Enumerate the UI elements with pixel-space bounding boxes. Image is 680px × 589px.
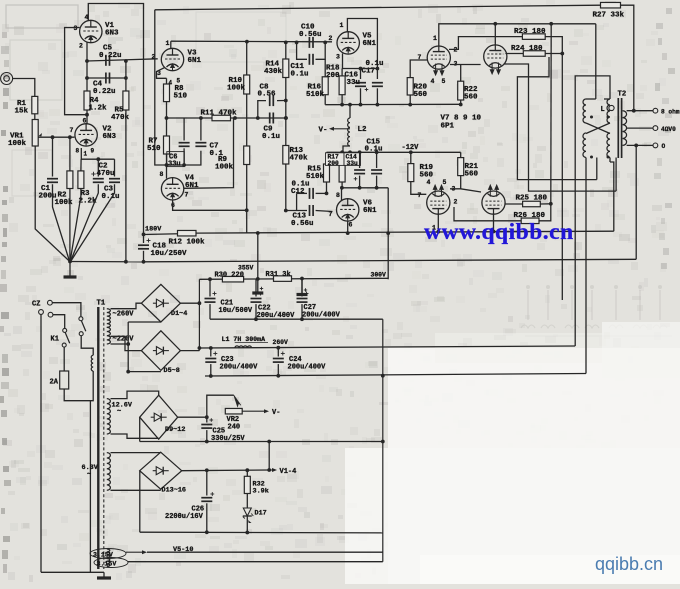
resistor R5 <box>125 61 127 91</box>
capacitor C9 0.1u row <box>269 113 271 124</box>
wire R25 right junction <box>540 203 551 205</box>
T2 secondary winding <box>623 111 627 146</box>
zener D17 <box>246 494 248 509</box>
svg-text:V1-4: V1-4 <box>280 468 297 476</box>
wire B+ drop x551 to R25 node <box>550 24 552 204</box>
capacitor C17 0.1u <box>372 82 383 84</box>
T2 secondary taps <box>627 110 653 112</box>
wire R8 to R7 <box>166 102 168 136</box>
wire V6 pin6 down to rail233 <box>347 221 349 233</box>
capacitor C16 33u <box>360 69 362 80</box>
resistor R2 <box>69 137 71 171</box>
wire V10 bottom to rail233 <box>493 214 495 231</box>
svg-text:470u: 470u <box>97 170 115 178</box>
wire V3 pin3 bracket to R8 <box>157 68 167 79</box>
svg-text:6N1: 6N1 <box>363 207 377 215</box>
svg-text:D9~12: D9~12 <box>165 426 185 434</box>
svg-text:200u/400V: 200u/400V <box>220 364 259 372</box>
svg-text:qqibb.cn: qqibb.cn <box>595 554 663 574</box>
svg-text:9: 9 <box>91 148 95 155</box>
bottom wire to T1 ground <box>41 571 104 573</box>
wire R1 to VR1 <box>34 114 36 120</box>
resistor R13 470k <box>283 146 289 165</box>
wire VR1 wiper to V2 grid <box>38 136 74 138</box>
T1 260V winding <box>107 309 111 328</box>
capacitor C7 0.1 <box>200 118 202 141</box>
capacitor C4 <box>105 73 107 84</box>
resistor R8 510 <box>166 78 168 84</box>
svg-text:V5-10: V5-10 <box>173 546 193 554</box>
capacitor C26 2200u/16V <box>206 470 208 495</box>
svg-text:1: 1 <box>166 40 170 47</box>
svg-text:7: 7 <box>329 211 333 218</box>
svg-text:D13~16: D13~16 <box>162 487 186 495</box>
screen rail y104.7 <box>325 103 461 105</box>
wire 6.3V taps to bridge D13-16 <box>111 452 161 454</box>
resistor R1 <box>32 96 38 113</box>
white paper region bottom right <box>388 348 680 584</box>
svg-text:L2: L2 <box>358 126 368 134</box>
bottom rail y187.8 to 300V drop <box>342 187 388 189</box>
capacitor C27 200u/400V <box>301 279 303 297</box>
svg-text:R24 180: R24 180 <box>511 45 543 53</box>
feedback rail left drop to cathode node <box>155 10 167 165</box>
svg-text:100k: 100k <box>227 85 246 93</box>
svg-text:1: 1 <box>340 22 344 29</box>
svg-text:7: 7 <box>418 192 422 199</box>
svg-text:1.2k: 1.2k <box>89 105 108 113</box>
svg-text:33u: 33u <box>347 79 361 87</box>
svg-text:2: 2 <box>329 35 333 42</box>
T2 winding outer lower <box>583 133 586 158</box>
fuse 2A <box>63 347 65 371</box>
tube V4 6N1 <box>161 178 183 200</box>
svg-text:260V: 260V <box>273 339 289 346</box>
rail y233 180V <box>196 231 614 233</box>
capacitor C1 200u <box>52 137 54 176</box>
capacitor C13 0.56u <box>296 193 298 210</box>
tube V6 6N1 <box>337 199 359 221</box>
svg-text:200u/400V: 200u/400V <box>302 312 341 320</box>
svg-text:510: 510 <box>147 145 161 153</box>
svg-text:8: 8 <box>160 171 164 178</box>
svg-text:5: 5 <box>177 78 181 85</box>
tube V1 6N3 <box>80 20 102 42</box>
wire D13-16 output V1-4 <box>182 469 270 472</box>
svg-text:~: ~ <box>117 408 121 416</box>
capacitor C14 33u <box>359 152 361 168</box>
resistor R3 <box>78 171 84 189</box>
wire 0-tap down to ground rail <box>635 145 637 259</box>
capacitor C6 33u boxed label <box>183 118 185 141</box>
switch K1 <box>79 317 83 321</box>
wire R23 right to drop <box>545 37 562 54</box>
svg-text:10u/250V: 10u/250V <box>151 250 188 258</box>
bridge D1-4 <box>141 284 180 322</box>
T2 primary feed upper inner <box>575 76 610 346</box>
svg-text:R30 220: R30 220 <box>215 271 244 279</box>
svg-text:V-: V- <box>319 126 328 134</box>
wire V7 pin7 to R20 <box>410 60 427 78</box>
wire C2 to ground fan <box>70 184 98 261</box>
T1 220V winding <box>107 327 111 344</box>
wire V5 plate loop to C17 column <box>347 19 377 80</box>
C2x bottom rail y319 <box>210 318 383 320</box>
long drop x562 <box>561 54 563 301</box>
svg-text:7: 7 <box>70 127 74 134</box>
wire V7 pin2 to R23 <box>449 37 522 50</box>
svg-text:2200u/16V: 2200u/16V <box>165 513 204 521</box>
capacitor C11 0.1u parallel <box>297 42 307 59</box>
svg-text:8: 8 <box>336 192 340 199</box>
T2 polarity dots <box>590 116 593 119</box>
wire V8 pin2 to R26 <box>454 207 521 221</box>
svg-text:V7 8 9 10: V7 8 9 10 <box>441 115 482 123</box>
svg-text:2A: 2A <box>50 379 59 387</box>
resistor R20 560 <box>407 78 413 95</box>
svg-text:0.22u: 0.22u <box>99 52 122 60</box>
svg-text:2: 2 <box>454 199 458 206</box>
wire V1 plate pin4 to top corner x143 <box>88 4 143 235</box>
resistor R26 180 <box>521 218 539 224</box>
svg-text:6P1: 6P1 <box>441 123 455 131</box>
svg-text:510k: 510k <box>306 91 325 99</box>
resistor R12 100k <box>178 230 197 236</box>
capacitor C15 0.1u <box>376 152 378 168</box>
wire R9 bottom to rail y210 <box>246 165 248 234</box>
svg-text:0.1u: 0.1u <box>262 133 280 141</box>
capacitor C3 0.1u <box>114 159 116 176</box>
resistor R22 560 <box>460 65 462 82</box>
neutral drop to bottom <box>89 401 91 573</box>
svg-text:8: 8 <box>76 148 80 155</box>
wire R5 bottom to ground rail <box>125 110 127 262</box>
svg-text:R27 33k: R27 33k <box>593 12 625 20</box>
junction 258 ground <box>256 277 260 281</box>
svg-text:0.56u: 0.56u <box>291 220 314 228</box>
wire VR2 to V- arrow <box>242 410 264 412</box>
svg-text:12.6V: 12.6V <box>112 402 133 410</box>
svg-text:180V: 180V <box>145 226 162 234</box>
wire CZ left pin down <box>40 314 42 572</box>
wire D9-12 output <box>178 416 207 418</box>
svg-text:470k: 470k <box>111 114 130 122</box>
B+ rail y23.8 <box>439 24 596 46</box>
resistor R7 510 <box>164 136 170 154</box>
wire R10 to R9 column <box>246 94 248 146</box>
wire CZ to switch K1 <box>52 303 81 317</box>
wire C3 to ground fan <box>71 184 115 261</box>
wire R7node to V4 top <box>166 165 168 179</box>
capacitor C2 470u <box>97 159 99 176</box>
tube V7 6P1 upper left <box>427 46 450 69</box>
inductor L2 <box>349 105 351 118</box>
svg-text:~260V: ~260V <box>113 311 135 319</box>
link x269 down <box>268 442 270 471</box>
svg-text:2: 2 <box>79 43 83 50</box>
wire R2 to ground fan <box>69 189 71 262</box>
wire V6 pin8 up to rail <box>341 188 343 201</box>
tube V10 6P1 lower right <box>482 191 505 214</box>
3.15V labels <box>90 549 126 559</box>
svg-text:3: 3 <box>336 54 340 61</box>
svg-text:1: 1 <box>84 151 88 158</box>
T1 3.15V windings <box>107 549 110 558</box>
wire 220V tap to bridge D5-8 <box>111 336 142 350</box>
grid rail R11 row <box>167 117 287 119</box>
V- arrow at L2 <box>334 128 350 130</box>
svg-text:33u: 33u <box>347 160 359 167</box>
svg-text:0.1u: 0.1u <box>365 145 383 153</box>
svg-text:4: 4 <box>431 78 435 85</box>
wire C18/180V node <box>144 233 197 234</box>
svg-text:D5~8: D5~8 <box>164 367 180 375</box>
L1 row y348 <box>199 346 575 348</box>
wire V9 pin3 drop x528 <box>504 64 616 191</box>
wire bridge outputs to 355V rail <box>180 302 199 304</box>
svg-text:100k: 100k <box>8 140 27 148</box>
svg-text:0.22u: 0.22u <box>93 88 116 96</box>
capacitor C12 0.1u <box>297 192 307 194</box>
svg-text:0.56u: 0.56u <box>299 31 322 39</box>
resistor R21 560 <box>460 152 462 157</box>
ground rail long y262-259 <box>144 259 637 262</box>
svg-text:300V: 300V <box>371 271 387 278</box>
resistor R25 180 <box>523 201 541 207</box>
svg-text:8 ohm: 8 ohm <box>661 109 680 116</box>
-12V rail y152 <box>327 151 461 153</box>
svg-text:6N3: 6N3 <box>105 30 119 38</box>
svg-text:0.1u: 0.1u <box>291 71 309 79</box>
svg-text:K1: K1 <box>51 336 59 344</box>
svg-text:O: O <box>662 143 666 150</box>
wire C5 row <box>87 59 158 61</box>
wire V4 pin6 to rail y210 <box>173 200 247 210</box>
svg-text:33u: 33u <box>168 161 181 169</box>
T2 primary feed from B+ rail <box>595 24 597 99</box>
svg-text:R12 100k: R12 100k <box>169 239 206 247</box>
capacitor C5 <box>105 55 107 66</box>
resistor R18 200 <box>341 69 343 76</box>
capacitor C23 200u/400V <box>210 348 212 357</box>
potentiometer VR2 240 <box>234 395 241 406</box>
6.3V negative rail y532 <box>140 531 383 534</box>
svg-text:470k: 470k <box>290 155 309 163</box>
svg-text:560: 560 <box>464 94 478 102</box>
vertical 258 to rail233 <box>257 233 259 279</box>
svg-text:R23 180: R23 180 <box>514 28 546 36</box>
svg-text:5: 5 <box>443 179 447 186</box>
svg-text:200: 200 <box>328 160 340 167</box>
wire C10 row y42 <box>171 40 332 43</box>
svg-text:3.15V: 3.15V <box>97 561 117 568</box>
svg-text:560: 560 <box>420 172 434 180</box>
svg-text:355V: 355V <box>238 264 254 271</box>
wire V9 grid to R24 <box>505 53 523 55</box>
wire VR1 bottom to ground fan <box>35 146 70 262</box>
capacitor C24 200u/400V <box>277 348 279 357</box>
inductor L1 7H 300mA <box>235 346 252 348</box>
resistor R16 510k <box>324 59 326 77</box>
svg-text:R25 180: R25 180 <box>516 195 548 203</box>
svg-text:510: 510 <box>174 93 188 101</box>
svg-text:D17: D17 <box>255 510 267 518</box>
potentiometer VR1 <box>32 120 38 147</box>
T2 winding inner upper <box>607 99 610 123</box>
bridge D9-12 <box>140 395 178 439</box>
wire V5 pin3 to R18 node <box>343 54 378 69</box>
resistor R23 180 <box>522 34 545 40</box>
tube V8 6P1 lower left <box>427 191 450 214</box>
ground rail left <box>70 261 144 263</box>
svg-text:T1: T1 <box>97 300 106 308</box>
T2 winding bottom drops <box>585 158 587 374</box>
svg-text:560: 560 <box>414 91 428 99</box>
rail233 to x525 <box>494 230 526 232</box>
capacitor C8 0.56 loop <box>258 101 266 118</box>
svg-text:6N1: 6N1 <box>188 57 202 65</box>
T1 primary winding <box>81 336 93 356</box>
wire V1 pin2 down <box>86 42 88 91</box>
svg-text:3.9k: 3.9k <box>253 488 269 496</box>
svg-text:~: ~ <box>87 471 91 479</box>
svg-text:C12: C12 <box>291 188 305 196</box>
svg-text:1: 1 <box>433 35 437 42</box>
tube V9 6P1 upper right <box>484 45 507 68</box>
300V drop x388 <box>387 188 389 279</box>
svg-text:R31 3k: R31 3k <box>266 271 291 279</box>
wire 12.6V taps to bridge D9-12 <box>111 391 159 399</box>
junction 302 ground <box>300 277 304 281</box>
resistor R31 3k <box>274 276 292 282</box>
capacitor C22 200u/400V <box>255 279 257 297</box>
resistor R10 100k <box>246 42 248 75</box>
svg-text:6: 6 <box>349 222 353 229</box>
tube V2 6N3 <box>75 124 97 146</box>
wire R27 to 8ohm tap <box>621 5 634 111</box>
tube V3 6N1 <box>161 48 183 70</box>
svg-text:430k: 430k <box>264 68 283 76</box>
svg-text:240: 240 <box>228 424 241 432</box>
wire V10 pin2 to R25 <box>505 203 523 205</box>
wire R4 to V2 pin6 <box>86 110 88 124</box>
capacitor C25 330u/25V <box>206 417 208 422</box>
svg-text:CZ: CZ <box>32 301 40 309</box>
input jack J1 <box>1 73 13 85</box>
wire 260V tap to bridge D1-4 <box>111 303 142 309</box>
svg-text:10u/500V: 10u/500V <box>219 307 253 315</box>
wire V2 cathode row <box>81 148 114 159</box>
svg-text:5: 5 <box>442 78 446 85</box>
T2 winding top links <box>586 98 596 100</box>
D9-12 negative rail y441 <box>140 441 383 443</box>
svg-text:D1~4: D1~4 <box>171 310 187 318</box>
wire to VR2 <box>207 395 234 417</box>
svg-text:7: 7 <box>185 192 189 199</box>
wire V8 pin1 to rail233 <box>437 214 439 232</box>
wire R21 to V8 pin3 and V10 pin7 <box>450 189 481 192</box>
wire R13 bottom to C13 row <box>285 164 287 211</box>
T2 winding inner lower <box>607 133 610 158</box>
T1 6.3V winding <box>107 453 111 491</box>
svg-text:V-: V- <box>272 409 280 417</box>
T1 ground <box>103 572 105 576</box>
svg-text:-12V: -12V <box>402 144 420 152</box>
heater rail V5-10 <box>126 551 142 553</box>
svg-text:6N1: 6N1 <box>363 40 377 48</box>
T2 winding outer upper <box>583 99 586 123</box>
wire V1 pin3 loop to R4 bottom <box>65 28 87 115</box>
ground main <box>69 262 71 277</box>
wire V3 plate pin1 to coupling row <box>170 41 172 48</box>
wire R14 bottom to R13 <box>285 78 287 146</box>
capacitor C10 0.56u <box>308 37 310 48</box>
svg-text:4: 4 <box>427 179 431 186</box>
svg-text:L1 7H 300mA: L1 7H 300mA <box>222 336 266 343</box>
wire V9 cathode drop x517 <box>517 57 596 180</box>
svg-text:0.56: 0.56 <box>258 91 277 99</box>
wire fuse to primary loop <box>64 371 93 401</box>
svg-text:3: 3 <box>74 25 78 32</box>
svg-text:100k: 100k <box>215 164 234 172</box>
T1 core <box>97 307 99 569</box>
svg-text:200u/400V: 200u/400V <box>288 364 327 372</box>
wire R3 to ground fan <box>70 189 81 262</box>
resistor R11 470k <box>212 115 231 121</box>
svg-text:L: L <box>601 106 605 114</box>
355V rail R30 R31 <box>199 278 388 279</box>
capacitor C21 10u/500V <box>209 279 211 296</box>
resistor R24 180 <box>523 51 545 57</box>
svg-text:T2: T2 <box>618 91 627 99</box>
wire C1 to ground fan <box>53 184 70 261</box>
resistor R9 100k <box>244 146 250 165</box>
bridge D13-16 <box>140 452 182 489</box>
wire common tap to bridges AC <box>111 343 129 345</box>
T1 12.6V winding <box>107 399 111 434</box>
resistor R27 33k <box>601 2 621 8</box>
resistor R4 <box>84 91 90 110</box>
wire input to R1 <box>13 79 35 97</box>
tube V5 6N1 <box>337 32 359 54</box>
resistor R19 560 <box>410 152 412 163</box>
wire R19 to V8 pin7 <box>411 182 427 195</box>
wire R7 bottom / C6 C7 bottom rail <box>167 151 201 165</box>
svg-text:www.qqibb.cn: www.qqibb.cn <box>424 219 574 245</box>
wire V7 pin3 to R22 to V9 pin7 <box>450 64 481 66</box>
heater rail 2 <box>128 561 383 563</box>
svg-text:4ΩV0: 4ΩV0 <box>661 126 676 133</box>
T2 core <box>617 98 619 158</box>
bleed-through texture <box>527 290 529 320</box>
resistor R32 3.9k <box>246 470 248 476</box>
wire R24 right <box>545 53 562 55</box>
svg-text:15k: 15k <box>15 108 29 116</box>
resistor R30 220 <box>222 276 243 282</box>
main vertical x382 down <box>382 319 384 562</box>
resistor R17 200 boxed <box>341 152 343 164</box>
svg-text:6: 6 <box>83 118 87 125</box>
bridge D5-8 <box>141 331 180 371</box>
resistor R15 510k <box>326 152 328 164</box>
resistor R14 430k <box>285 42 287 59</box>
svg-text:6N3: 6N3 <box>103 133 117 141</box>
T2 cross links <box>586 123 610 134</box>
wire V4 grid right to R11 end <box>184 118 234 188</box>
svg-text:R11 470k: R11 470k <box>201 110 238 118</box>
screen rail y376 <box>205 374 586 377</box>
capacitor C18 10u/250V <box>143 235 145 244</box>
